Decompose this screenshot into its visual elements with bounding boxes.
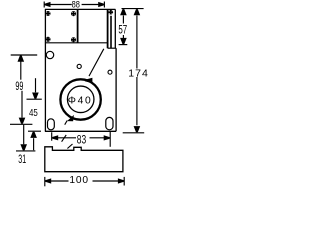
arrowhead 99 top bbox=[18, 56, 25, 62]
dimension 45 bbox=[27, 78, 42, 150]
slot bottom-right bbox=[106, 117, 113, 129]
screw hole crossed circle top-left bbox=[45, 11, 50, 16]
svg-text:57: 57 bbox=[118, 23, 127, 37]
arrowhead 88 right bbox=[98, 2, 104, 7]
dimension 31 bbox=[16, 125, 35, 151]
big bore inner circle bbox=[67, 86, 94, 113]
bottom edge of top blocks bbox=[45, 42, 107, 44]
arrowhead 45 top bbox=[32, 93, 39, 99]
block2 right edge bbox=[107, 9, 109, 48]
plate right edge lower bbox=[115, 48, 117, 131]
leader arrowhead top bbox=[85, 78, 93, 84]
arrowhead 174 top bbox=[134, 9, 141, 15]
arrowhead 100 left bbox=[45, 178, 51, 183]
big bore outer circle bbox=[60, 79, 100, 119]
plate top edge bbox=[45, 8, 116, 10]
D-notch circle on left edge bbox=[46, 51, 53, 58]
svg-text:45: 45 bbox=[29, 107, 38, 119]
dimension 83 bbox=[52, 132, 110, 147]
column bottom edge bbox=[108, 47, 117, 49]
svg-text:88: 88 bbox=[72, 0, 80, 10]
plate bottom edge bbox=[45, 130, 116, 132]
svg-text:100: 100 bbox=[69, 175, 88, 186]
leader tail bottom-left bbox=[65, 121, 68, 125]
arrowhead 31 bbox=[20, 144, 27, 150]
screw hole crossed circle bottom-left bbox=[45, 37, 50, 42]
arrowhead 57 bottom bbox=[120, 38, 127, 44]
plate right edge upper bbox=[114, 9, 116, 48]
slash mark above bottom view bbox=[67, 144, 72, 149]
dimension 57 bbox=[119, 9, 144, 45]
arrowhead 83 left bbox=[52, 135, 58, 140]
screw hole crossed circle bottom-right bbox=[71, 37, 76, 42]
svg-text:Φ40: Φ40 bbox=[68, 96, 92, 107]
dimension 88 bbox=[44, 2, 104, 8]
slot bottom-left bbox=[48, 119, 55, 130]
svg-text:99: 99 bbox=[15, 80, 23, 93]
screw hole crossed circle column top bbox=[109, 10, 114, 15]
svg-text:83: 83 bbox=[77, 134, 86, 147]
arrowhead 174 bottom bbox=[134, 126, 141, 132]
arrowhead 100 right bbox=[118, 178, 124, 183]
bottom view outline bbox=[45, 147, 123, 172]
divider line between block1 and block2 bbox=[77, 9, 79, 42]
arrowhead 45 bottom bbox=[30, 132, 37, 138]
arrowhead 57 top bbox=[120, 9, 127, 15]
plate left edge bbox=[44, 9, 46, 131]
dimension 100 bbox=[45, 177, 124, 186]
slash mark on 83 line bbox=[62, 135, 67, 142]
small hole upper middle bbox=[77, 64, 81, 68]
arrowhead 83 right bbox=[104, 135, 110, 140]
svg-text:31: 31 bbox=[18, 152, 26, 166]
arrowhead 99 bottom bbox=[19, 118, 26, 124]
leader line for PHI40 bbox=[89, 49, 104, 76]
arrowhead 88 left bbox=[45, 2, 51, 7]
dimension 99 bbox=[10, 55, 37, 124]
leader arrowhead bottom-left bbox=[67, 115, 74, 121]
svg-text:174: 174 bbox=[128, 67, 149, 79]
screw hole crossed circle top-right bbox=[71, 11, 76, 16]
column inner line bbox=[110, 16, 112, 48]
small hole right bbox=[108, 70, 112, 74]
dimension 174 bbox=[123, 16, 145, 133]
